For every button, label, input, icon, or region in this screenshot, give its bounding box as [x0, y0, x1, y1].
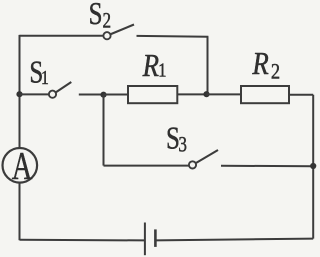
wire S3 branch vertical (node C down) — [103, 95, 105, 166]
resistor R1 — [128, 86, 177, 103]
svg-text:S3: S3 — [166, 120, 187, 157]
switch S3 — [189, 150, 218, 168]
wire vertical from top-right corner down to node B — [207, 37, 209, 95]
wire node B to R2 — [207, 93, 242, 95]
wire R1 to node B — [177, 93, 206, 95]
wire S3 to right vertical — [221, 165, 313, 167]
wire left vertical below ammeter — [19, 183, 21, 240]
ammeter A — [3, 145, 38, 187]
svg-text:S2: S2 — [89, 0, 111, 33]
svg-text:R2: R2 — [251, 47, 280, 84]
wire left vertical (top corner down to ammeter) — [19, 35, 21, 148]
svg-text:A: A — [12, 145, 33, 187]
wire bottom-left (to battery) — [20, 239, 145, 242]
switch S1 — [49, 82, 71, 98]
svg-text:R1: R1 — [142, 49, 167, 84]
switch S2 — [103, 25, 134, 40]
node A (junction dot left) — [16, 91, 22, 97]
wire R2 to top-right corner — [289, 94, 313, 96]
wire S3 branch horizontal left — [104, 165, 189, 167]
wire top-right horizontal (S2 to corner) — [137, 35, 209, 38]
resistor R2 — [241, 86, 289, 103]
battery long plate (+) — [144, 223, 146, 256]
wire S1 to node C — [79, 94, 104, 96]
wire node C to R1 — [104, 94, 129, 96]
wire bottom-right (battery to corner) — [155, 239, 313, 241]
node B (junction dot right) — [203, 91, 209, 97]
wire right vertical — [312, 95, 314, 239]
node D (junction dot S3/right vertical) — [310, 163, 316, 169]
wire top-left horizontal (to S2) — [20, 35, 103, 37]
wire middle-left (node A to S1) — [20, 93, 49, 95]
svg-text:S1: S1 — [29, 55, 48, 91]
node C (junction dot centre) — [100, 92, 106, 98]
battery short plate (-) — [154, 229, 157, 247]
